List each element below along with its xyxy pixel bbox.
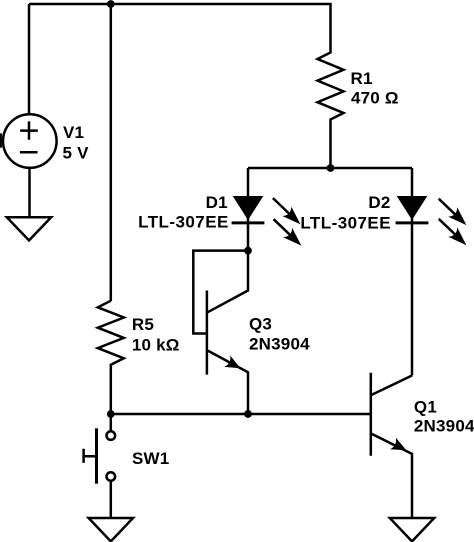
svg-text:R5: R5 [132,315,154,334]
svg-text:LTL-307EE: LTL-307EE [300,213,391,232]
svg-text:R1: R1 [351,69,373,88]
svg-text:LTL-307EE: LTL-307EE [138,213,229,232]
svg-text:470 Ω: 470 Ω [351,89,399,108]
svg-text:Q1: Q1 [414,398,437,417]
svg-text:D2: D2 [368,193,390,212]
svg-text:D1: D1 [206,193,228,212]
svg-text:2N3904: 2N3904 [414,417,474,436]
svg-text:V1: V1 [63,123,84,142]
svg-text:Q3: Q3 [249,315,272,334]
svg-text:5 V: 5 V [63,143,90,162]
svg-text:SW1: SW1 [132,449,169,468]
svg-text:2N3904: 2N3904 [249,335,310,354]
svg-text:10 kΩ: 10 kΩ [132,335,180,354]
